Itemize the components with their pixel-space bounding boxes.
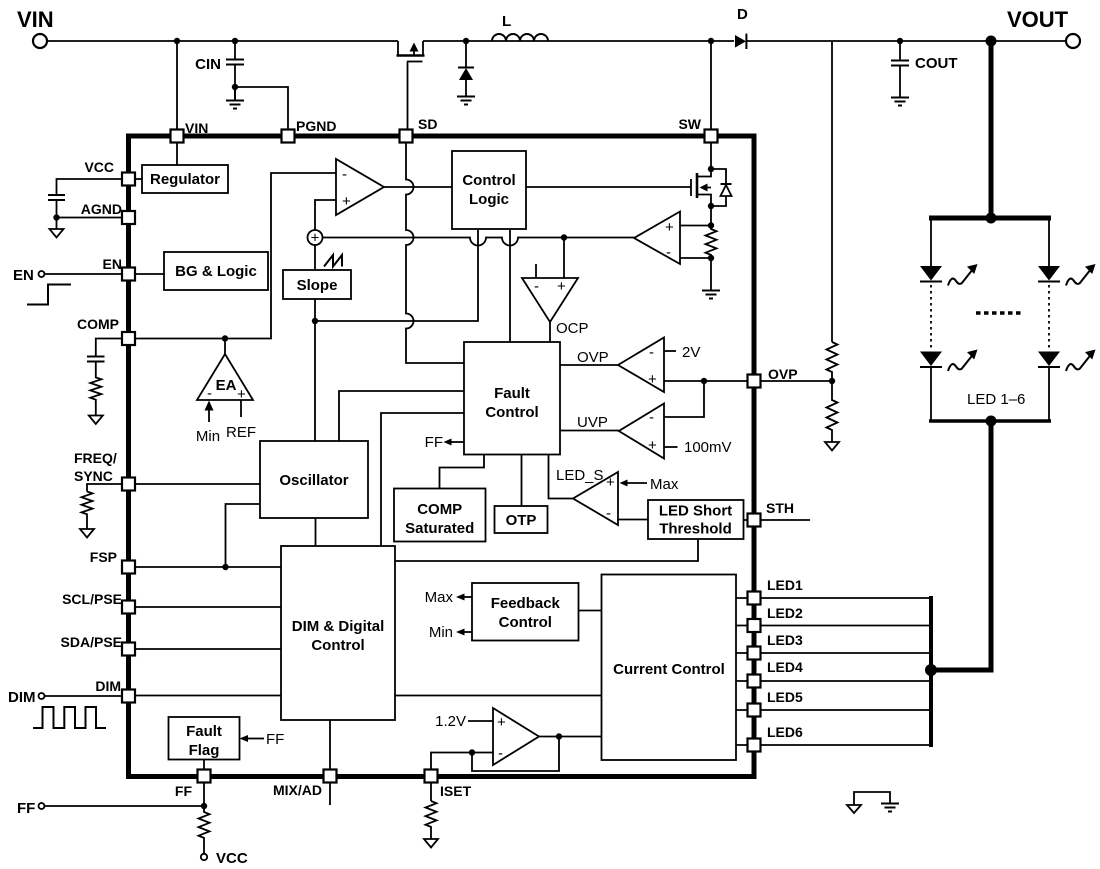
wire LED bus bbox=[929, 596, 933, 747]
pin MIX/AD bbox=[273, 770, 337, 799]
terminal VOUT bbox=[1007, 7, 1080, 48]
ground arrow COMP bbox=[89, 416, 103, 425]
wire MIX/AD stub bbox=[329, 720, 331, 805]
svg-text:Fault: Fault bbox=[494, 385, 530, 402]
block Fault Control bbox=[464, 342, 560, 455]
svg-text:LED6: LED6 bbox=[767, 724, 803, 740]
block Slope bbox=[283, 270, 351, 299]
wire buffer feedback bbox=[472, 737, 559, 772]
svg-text:-: - bbox=[649, 409, 654, 426]
LED D7 bbox=[1038, 350, 1096, 372]
block DIM & Digital Control bbox=[281, 546, 395, 720]
node COMP-EA junction bbox=[222, 335, 228, 341]
wire VOUT thick drop bbox=[989, 41, 994, 218]
waveform sawtooth slope bbox=[324, 255, 342, 267]
svg-text:Min: Min bbox=[196, 428, 220, 445]
wire LED_S minus bbox=[618, 519, 648, 521]
svg-text:VCC: VCC bbox=[84, 159, 114, 175]
node dots between strings bbox=[976, 311, 1021, 315]
wire FF external bbox=[45, 805, 205, 807]
svg-text:Feedback: Feedback bbox=[491, 595, 561, 612]
svg-text:Logic: Logic bbox=[469, 191, 509, 208]
wire Oscillator to DIM block bbox=[315, 518, 317, 546]
svg-text:VCC: VCC bbox=[216, 850, 248, 867]
node CS plus junction bbox=[708, 222, 714, 228]
resistor R-FF pullup bbox=[199, 806, 210, 854]
wire Fault to COMP Saturated bbox=[440, 455, 485, 489]
wire Control Logic to Fault Control bbox=[509, 229, 511, 342]
wire VCC to Regulator bbox=[135, 178, 143, 180]
wire slope output bbox=[314, 245, 316, 441]
node OVP junction bbox=[701, 378, 707, 384]
pin VIN bbox=[171, 120, 209, 143]
wire STH to pin and external stub bbox=[744, 519, 811, 521]
node COUT junction bbox=[897, 38, 903, 44]
wire Feedback to Current Control bbox=[579, 610, 602, 612]
terminal VIN bbox=[17, 7, 54, 48]
svg-text:SYNC: SYNC bbox=[74, 468, 113, 484]
svg-text:EN: EN bbox=[103, 256, 122, 272]
svg-text:LED Short: LED Short bbox=[659, 503, 732, 520]
wire Q2 source to sense bbox=[710, 206, 712, 226]
wire top rail left bbox=[47, 40, 398, 42]
pin AGND bbox=[81, 201, 135, 224]
transistor Q1 input disconnect FET bbox=[397, 41, 425, 130]
wire FREQ external bbox=[87, 484, 122, 492]
wire LED Short to DIM block bbox=[395, 539, 698, 561]
block Control Logic bbox=[452, 151, 526, 229]
svg-text:COMP: COMP bbox=[77, 316, 119, 332]
svg-text:+: + bbox=[665, 219, 674, 236]
pin STH bbox=[748, 500, 795, 527]
resistor R-COMP bbox=[90, 362, 101, 416]
ground arrow FREQ bbox=[80, 529, 94, 538]
block OTP bbox=[495, 506, 548, 533]
block COMP Saturated bbox=[394, 489, 486, 542]
wire ISET pin drop bbox=[430, 783, 432, 802]
svg-text:-: - bbox=[666, 244, 671, 261]
svg-text:Control: Control bbox=[462, 172, 515, 189]
pin SW bbox=[678, 116, 717, 143]
comparator OVP bbox=[618, 338, 664, 393]
svg-text:-: - bbox=[534, 278, 539, 295]
svg-text:Threshold: Threshold bbox=[659, 521, 732, 538]
wire LED string left bottom bbox=[930, 367, 932, 421]
waveform DIM pwm bbox=[33, 707, 106, 728]
pin OVP bbox=[748, 366, 798, 388]
wire SW to Q2 bbox=[710, 143, 712, 170]
svg-text:STH: STH bbox=[766, 500, 794, 516]
wire FF pin drop bbox=[203, 783, 205, 807]
pin FSP bbox=[90, 549, 135, 574]
comparator UVP bbox=[619, 404, 664, 459]
pin SD bbox=[400, 116, 438, 143]
node buffer minus junction bbox=[469, 749, 475, 755]
LED D4 bbox=[920, 264, 978, 286]
svg-text:MIX/AD: MIX/AD bbox=[273, 782, 322, 798]
node SW junction bbox=[708, 38, 714, 44]
block LED Short Threshold bbox=[648, 500, 744, 539]
svg-text:Saturated: Saturated bbox=[405, 520, 474, 537]
wire LED3 net bbox=[761, 652, 932, 654]
svg-text:Control: Control bbox=[311, 637, 364, 654]
resistor R2 divider bottom bbox=[827, 381, 838, 442]
wire VCC external bbox=[57, 179, 123, 195]
wire OVP pin to divider bbox=[761, 380, 833, 382]
node LED top junction bbox=[986, 213, 997, 224]
capacitor CIN bbox=[195, 41, 244, 87]
wire FSP to Oscillator bbox=[226, 504, 261, 567]
node 1.2V reference bbox=[435, 713, 493, 730]
pin EN bbox=[103, 256, 135, 281]
pin SDA/PSE bbox=[61, 634, 135, 656]
node Max feedback arrow bbox=[425, 589, 472, 606]
node LED bus junction bbox=[925, 664, 937, 676]
svg-text:EA: EA bbox=[216, 377, 237, 394]
node summing junction bbox=[308, 230, 323, 247]
svg-text:FREQ/: FREQ/ bbox=[74, 450, 117, 466]
svg-text:FF: FF bbox=[425, 434, 443, 451]
wire EN external bbox=[45, 273, 123, 275]
block BG & Logic bbox=[135, 252, 269, 290]
svg-text:DIM & Digital: DIM & Digital bbox=[292, 618, 385, 635]
node slope junction bbox=[312, 318, 318, 324]
waveform EN step bbox=[27, 285, 71, 305]
block Regulator bbox=[142, 143, 228, 194]
svg-text:COMP: COMP bbox=[417, 501, 462, 518]
wire LED4 net bbox=[761, 680, 932, 682]
resistor R-FREQ bbox=[82, 492, 93, 530]
node OCP tap junction bbox=[561, 234, 567, 240]
svg-text:Slope: Slope bbox=[297, 277, 338, 294]
node buffer out junction bbox=[556, 733, 562, 739]
wire DIM through to Current Control bbox=[395, 695, 602, 697]
svg-text:-: - bbox=[649, 344, 654, 361]
pin PGND bbox=[282, 118, 337, 143]
wire Fault Flag to FF pin bbox=[203, 760, 205, 770]
op-amp EA bbox=[197, 339, 253, 404]
node 2V reference bbox=[664, 344, 700, 361]
wire LED return thick bbox=[931, 421, 991, 670]
svg-text:100mV: 100mV bbox=[684, 439, 732, 456]
svg-text:+: + bbox=[311, 230, 320, 247]
svg-text:FF: FF bbox=[175, 783, 193, 799]
svg-text:+: + bbox=[557, 278, 566, 295]
pin FF bbox=[175, 770, 211, 800]
svg-text:D: D bbox=[737, 6, 748, 23]
wire SW pin drop bbox=[710, 41, 712, 130]
node LED bottom junction bbox=[986, 416, 997, 427]
wire buffer minus to ISET bbox=[431, 753, 493, 770]
node FF junction bbox=[201, 803, 207, 809]
svg-text:Min: Min bbox=[429, 624, 453, 641]
capacitor C-COMP bbox=[87, 357, 105, 362]
wire FREQ to Oscillator bbox=[135, 483, 261, 485]
pin DIM bbox=[95, 678, 135, 703]
wire dim to Fault Control bbox=[381, 413, 464, 546]
svg-text:ISET: ISET bbox=[440, 783, 472, 799]
wire OVP comparator out bbox=[560, 349, 618, 366]
ground arrow divider bbox=[825, 442, 839, 451]
wire SCL to DIM block bbox=[135, 606, 282, 608]
wire LED top bar bbox=[929, 216, 1051, 221]
pin LED1 bbox=[748, 577, 804, 605]
wire LED5 net bbox=[761, 709, 932, 711]
wire LED1 net bbox=[761, 597, 932, 599]
resistor R1 divider top bbox=[827, 342, 838, 381]
ground arrow ISET bbox=[424, 839, 438, 848]
wire LED pin stubs bbox=[736, 598, 748, 745]
wire PWM output to Control Logic bbox=[384, 186, 452, 188]
svg-text:LED3: LED3 bbox=[767, 632, 803, 648]
svg-text:LED1: LED1 bbox=[767, 577, 803, 593]
wire Fault to LED_S bbox=[549, 455, 574, 499]
wire LED string left top bbox=[930, 218, 932, 266]
ground earth under COUT bbox=[891, 98, 909, 106]
svg-text:OTP: OTP bbox=[506, 512, 537, 529]
comparator CS amp bbox=[634, 212, 680, 265]
block Fault Flag bbox=[169, 717, 240, 760]
transistor Q2 power FET bbox=[691, 169, 711, 206]
wire buffer out bbox=[539, 736, 602, 738]
wire slope to Control Logic bbox=[315, 229, 478, 321]
wire OCP out bbox=[549, 322, 551, 342]
svg-text:Oscillator: Oscillator bbox=[279, 472, 348, 489]
svg-text:+: + bbox=[342, 193, 351, 210]
wire AGND external bbox=[57, 218, 123, 230]
wire PWM plus input bbox=[315, 200, 336, 230]
svg-text:L: L bbox=[502, 13, 511, 30]
ground tie AGND-PGND bbox=[847, 792, 899, 813]
wire VIN pin drop bbox=[176, 41, 178, 130]
wire OVP divider top bbox=[831, 41, 833, 342]
svg-text:SDA/PSE: SDA/PSE bbox=[61, 634, 122, 650]
node VOUT junction bbox=[986, 36, 997, 47]
svg-text:-: - bbox=[342, 166, 347, 183]
pin LED6 bbox=[748, 724, 804, 752]
comparator OCP bbox=[522, 238, 589, 338]
wire LED string right bottom bbox=[1048, 367, 1050, 421]
wire to PGND pin bbox=[235, 87, 288, 130]
terminal EN bbox=[13, 267, 45, 284]
pin ISET bbox=[425, 770, 472, 800]
ground earth under CIN bbox=[226, 87, 244, 109]
svg-text:SD: SD bbox=[418, 116, 437, 132]
svg-text:REF: REF bbox=[226, 424, 256, 441]
wire UVP comparator out bbox=[560, 414, 619, 431]
wire VCC cap to AGND bbox=[56, 200, 58, 218]
wire Fault to OTP bbox=[521, 455, 523, 507]
node AGND junction bbox=[53, 214, 59, 220]
svg-text:SW: SW bbox=[678, 116, 701, 132]
svg-text:CIN: CIN bbox=[195, 56, 221, 73]
svg-text:FF: FF bbox=[17, 800, 35, 817]
node FF output arrow bbox=[425, 434, 464, 451]
node CIN junction bbox=[232, 38, 238, 44]
diode D2 clamp at Q1 bbox=[457, 38, 475, 105]
wire SD internal with hops bbox=[406, 143, 464, 364]
svg-text:EN: EN bbox=[13, 267, 34, 284]
pin LED4 bbox=[748, 659, 804, 688]
wire COMP external bbox=[96, 339, 122, 357]
svg-text:1.2V: 1.2V bbox=[435, 713, 466, 730]
block Oscillator bbox=[260, 441, 368, 518]
wire LED string right top bbox=[1048, 218, 1050, 266]
node VIN junction bbox=[174, 38, 180, 44]
svg-text:Fault: Fault bbox=[186, 723, 222, 740]
svg-text:DIM: DIM bbox=[8, 689, 36, 706]
svg-text:LED_S: LED_S bbox=[556, 467, 604, 484]
capacitor C-VCC bbox=[48, 195, 65, 200]
svg-text:Current Control: Current Control bbox=[613, 661, 725, 678]
terminal FF bbox=[17, 800, 45, 817]
ground arrow AGND bbox=[50, 229, 64, 238]
wire top rail mid bbox=[423, 40, 734, 42]
terminal DIM bbox=[8, 689, 45, 706]
svg-text:Control: Control bbox=[485, 404, 538, 421]
IC boundary bbox=[129, 136, 755, 777]
svg-text:COUT: COUT bbox=[915, 55, 958, 72]
pin COMP bbox=[77, 316, 135, 345]
pin VCC bbox=[84, 159, 135, 186]
inductor L bbox=[492, 13, 548, 41]
svg-text:+: + bbox=[606, 474, 615, 491]
svg-text:BG & Logic: BG & Logic bbox=[175, 263, 257, 280]
svg-text:VOUT: VOUT bbox=[1007, 7, 1069, 32]
block Feedback Control bbox=[472, 583, 579, 641]
comparator PWM bbox=[336, 159, 384, 215]
node 100mV reference bbox=[664, 439, 732, 456]
wire LED string left dotted bbox=[930, 285, 932, 349]
node Q2 source junction bbox=[708, 203, 714, 209]
node REF input bbox=[226, 400, 256, 441]
block Current Control bbox=[602, 575, 737, 761]
svg-text:Regulator: Regulator bbox=[150, 171, 220, 188]
svg-text:FF: FF bbox=[266, 731, 284, 748]
svg-text:Flag: Flag bbox=[189, 742, 220, 759]
wire LED string right dotted bbox=[1048, 285, 1050, 349]
comparator LED_S bbox=[556, 467, 618, 525]
LED D5 bbox=[920, 350, 978, 372]
wire top rail right bbox=[747, 40, 1066, 42]
svg-text:AGND: AGND bbox=[81, 201, 122, 217]
pin LED3 bbox=[748, 632, 804, 660]
diode D3 body bbox=[711, 169, 732, 206]
svg-text:Max: Max bbox=[650, 476, 679, 493]
svg-text:VIN: VIN bbox=[185, 120, 208, 136]
wire osc to Fault Control bbox=[339, 391, 464, 441]
svg-text:+: + bbox=[497, 714, 506, 731]
svg-text:LED 1–6: LED 1–6 bbox=[967, 391, 1025, 408]
wire LED bottom bar bbox=[929, 419, 1051, 423]
svg-text:UVP: UVP bbox=[577, 414, 608, 431]
svg-text:Control: Control bbox=[499, 614, 552, 631]
wire CS minus bbox=[680, 257, 711, 259]
svg-text:OVP: OVP bbox=[577, 349, 609, 366]
pin LED5 bbox=[748, 689, 804, 717]
wire summing to OCP and CS amp bbox=[323, 238, 635, 246]
diode D rectifier bbox=[735, 6, 748, 49]
svg-text:LED5: LED5 bbox=[767, 689, 803, 705]
svg-text:Max: Max bbox=[425, 589, 454, 606]
node divider junction bbox=[829, 378, 835, 384]
wire CS plus bbox=[680, 225, 711, 227]
svg-text:PGND: PGND bbox=[296, 118, 336, 134]
wire gate drive bbox=[526, 186, 691, 188]
terminal VCC pullup bbox=[201, 850, 248, 867]
svg-text:LED4: LED4 bbox=[767, 659, 803, 675]
wire OVP to UVP minus bbox=[664, 381, 704, 417]
wire LED6 net bbox=[761, 744, 932, 746]
node Min feedback arrow bbox=[429, 624, 472, 641]
capacitor COUT bbox=[891, 41, 958, 97]
node Min input arrow bbox=[196, 401, 220, 446]
wire COMP node bbox=[135, 173, 337, 339]
wire DIM in bbox=[135, 695, 282, 697]
svg-text:VIN: VIN bbox=[17, 7, 54, 32]
pin LED2 bbox=[748, 605, 804, 632]
pin FREQ/SYNC bbox=[74, 450, 135, 491]
node CS minus junction bbox=[708, 255, 714, 261]
op-amp ISET buffer bbox=[493, 708, 539, 765]
node Max reference arrow bbox=[620, 476, 679, 493]
ground earth R-sense bbox=[710, 258, 712, 290]
svg-text:2V: 2V bbox=[682, 344, 700, 361]
svg-text:-: - bbox=[498, 745, 503, 762]
svg-text:+: + bbox=[648, 371, 657, 388]
node FSP junction bbox=[222, 564, 228, 570]
wire DIM external bbox=[45, 695, 123, 697]
wire FSP to DIM block bbox=[135, 566, 282, 568]
resistor R-ISET bbox=[426, 801, 437, 839]
resistor R-sense bbox=[706, 226, 717, 259]
wire SDA to DIM block bbox=[135, 648, 282, 650]
svg-text:FSP: FSP bbox=[90, 549, 117, 565]
svg-text:LED2: LED2 bbox=[767, 605, 803, 621]
svg-text:SCL/PSE: SCL/PSE bbox=[62, 591, 122, 607]
pin SCL/PSE bbox=[62, 591, 135, 614]
LED D6 bbox=[1038, 264, 1096, 286]
node CIN-PGND junction bbox=[232, 84, 238, 90]
svg-text:OVP: OVP bbox=[768, 366, 798, 382]
svg-text:-: - bbox=[207, 385, 212, 402]
wire LED2 net bbox=[761, 625, 932, 627]
node FF input arrow bbox=[240, 731, 285, 748]
svg-text:+: + bbox=[648, 437, 657, 454]
svg-text:DIM: DIM bbox=[95, 678, 121, 694]
svg-text:OCP: OCP bbox=[556, 320, 589, 337]
wire OVP plus to pin bbox=[664, 380, 748, 382]
svg-text:-: - bbox=[606, 505, 611, 522]
node Q2 drain junction bbox=[708, 166, 714, 172]
